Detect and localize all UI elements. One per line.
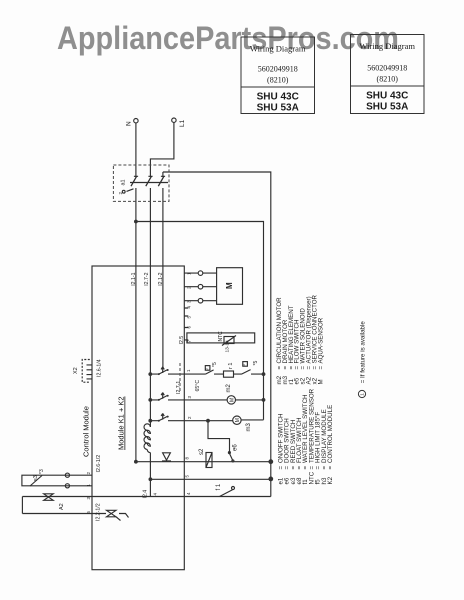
svg-text:M: M <box>225 282 234 289</box>
svg-text:K2: K2 <box>327 476 334 484</box>
svg-text:L1: L1 <box>179 119 186 127</box>
svg-text:NTC: NTC <box>218 331 224 342</box>
svg-text:s2: s2 <box>199 448 205 455</box>
svg-text:(8210): (8210) <box>267 76 289 85</box>
svg-text:AQUA-SENSOR: AQUA-SENSOR <box>317 317 324 363</box>
svg-text:*5: *5 <box>253 361 259 366</box>
svg-text:AppliancePartsPros.com: AppliancePartsPros.com <box>57 20 399 56</box>
svg-text:I2.1-2: I2.1-2 <box>158 272 164 285</box>
svg-text:A2: A2 <box>59 503 65 510</box>
svg-text:(8210): (8210) <box>377 75 399 84</box>
svg-text:M: M <box>235 418 241 422</box>
svg-text:=: = <box>317 366 324 370</box>
svg-text:I2.5: I2.5 <box>179 336 185 345</box>
svg-text:e6: e6 <box>233 444 239 451</box>
svg-text:13-14: 13-14 <box>225 340 231 353</box>
svg-text:Control Module: Control Module <box>82 406 91 457</box>
svg-text:I2.2-1/2: I2.2-1/2 <box>96 503 102 521</box>
svg-text:5: 5 <box>242 364 246 366</box>
svg-text:m2: m2 <box>226 384 232 393</box>
svg-text:Module K1 + K2: Module K1 + K2 <box>117 396 126 450</box>
svg-text:M: M <box>317 379 324 384</box>
svg-text:I2.6-1/4: I2.6-1/4 <box>97 359 103 377</box>
svg-text:I2.7-2: I2.7-2 <box>144 272 150 285</box>
svg-text:I2.7-1: I2.7-1 <box>176 381 182 394</box>
svg-text:a1: a1 <box>121 179 127 185</box>
svg-text:*5: *5 <box>212 362 218 367</box>
svg-text:r 1: r 1 <box>228 363 234 369</box>
svg-text:CONTROL MODULE: CONTROL MODULE <box>327 405 334 463</box>
svg-text:I2.1-1: I2.1-1 <box>131 272 137 285</box>
svg-text:5602049918: 5602049918 <box>367 64 407 73</box>
svg-text:SHU 43C: SHU 43C <box>257 92 299 103</box>
svg-text:5602049918: 5602049918 <box>258 65 298 74</box>
svg-text:N: N <box>126 121 133 126</box>
svg-text:m3: m3 <box>246 423 252 432</box>
svg-text:Wiring Diagram: Wiring Diagram <box>250 44 306 54</box>
svg-text:I2.6-1/2: I2.6-1/2 <box>96 455 102 473</box>
svg-text:SHU 53A: SHU 53A <box>366 102 408 113</box>
svg-text:65°C: 65°C <box>195 380 201 392</box>
svg-text:SHU 43C: SHU 43C <box>366 91 408 102</box>
svg-text:= If feature is available: = If feature is available <box>360 321 367 385</box>
svg-text:5: 5 <box>205 368 209 370</box>
svg-text:1: 1 <box>360 393 365 396</box>
svg-text:f 1: f 1 <box>216 483 222 490</box>
svg-text:X2: X2 <box>73 367 79 374</box>
svg-text:Wiring Diagram: Wiring Diagram <box>359 41 415 51</box>
svg-text:s3: s3 <box>33 475 39 481</box>
svg-text:SHU 53A: SHU 53A <box>257 103 299 114</box>
svg-text:=: = <box>327 466 334 470</box>
svg-text:I2.4: I2.4 <box>143 490 149 499</box>
svg-text:M: M <box>229 398 235 402</box>
svg-text:*3: *3 <box>39 469 45 474</box>
